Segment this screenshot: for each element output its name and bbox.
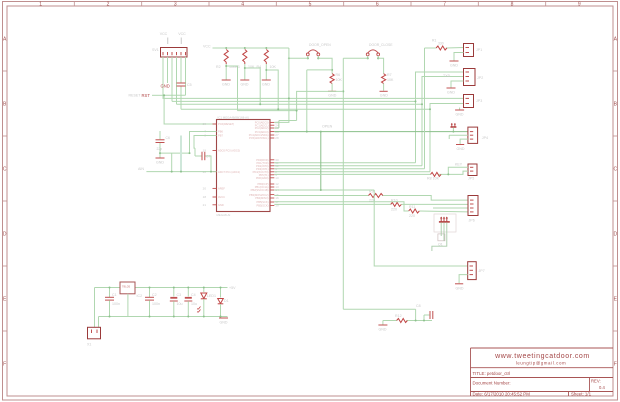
ground under JP4 [456, 145, 465, 152]
wire VCC to JP3 [289, 97, 464, 99]
wire pin4 [176, 57, 178, 104]
resistor R4 [257, 47, 277, 80]
svg-text:D1: D1 [224, 299, 229, 303]
wire pin3 [171, 57, 173, 101]
svg-text:GND: GND [220, 321, 228, 325]
svg-text:F: F [614, 362, 617, 368]
svg-text:22p: 22p [157, 147, 163, 151]
svg-text:VCC: VCC [178, 32, 186, 36]
svg-text:OPEN: OPEN [322, 125, 333, 129]
wire S1 tap branch [307, 70, 332, 132]
ground under R4 [262, 80, 271, 87]
resistor R10 [391, 202, 402, 206]
svg-text:R2: R2 [216, 65, 221, 69]
svg-text:TXD: TXD [443, 74, 451, 78]
svg-text:18: 18 [203, 195, 207, 199]
svg-text:JP7: JP7 [479, 269, 485, 273]
svg-text:PD6(AIN0): PD6(AIN0) [256, 176, 269, 180]
svg-text:JP2: JP2 [477, 76, 483, 80]
svg-text:4: 4 [241, 2, 244, 8]
wire stack2 tap [245, 68, 260, 104]
svg-text:100n: 100n [152, 302, 160, 306]
svg-text:21: 21 [203, 203, 207, 207]
wire + resistor R11 [274, 202, 468, 212]
ground under JP2 [447, 88, 456, 95]
battery connector X1 [87, 327, 101, 346]
IC pin numbers gray [203, 121, 279, 208]
svg-text:F: F [3, 362, 6, 368]
svg-text:PB4(MISO): PB4(MISO) [255, 196, 268, 200]
svg-text:RST: RST [142, 93, 151, 98]
svg-text:GND: GND [456, 113, 464, 117]
IC left pin stubs [213, 124, 217, 205]
svg-text:RESET: RESET [129, 94, 142, 98]
wire stack3 tap [266, 70, 278, 109]
svg-text:VCC: VCC [203, 45, 211, 49]
svg-text:JP1: JP1 [476, 48, 482, 52]
wire JP2 pin3 to ground [451, 81, 464, 88]
svg-text:GND: GND [262, 83, 270, 87]
svg-text:9: 9 [578, 2, 581, 8]
wire JP6 pin3 [433, 207, 468, 209]
svg-text:PC6(/RESET): PC6(/RESET) [218, 122, 234, 126]
connector JP1 [464, 44, 483, 57]
svg-text:GND: GND [161, 84, 170, 89]
svg-text:LED1: LED1 [207, 294, 216, 298]
wire pin1 [163, 57, 289, 98]
wires from M03 [432, 222, 447, 251]
wire box upper [146, 131, 216, 172]
svg-text:C1: C1 [112, 293, 117, 297]
ground under R2 [222, 80, 231, 87]
svg-text:KEY: KEY [455, 163, 463, 167]
svg-text:+5V: +5V [229, 286, 236, 290]
svg-text:8: 8 [511, 2, 514, 8]
LED1 [197, 287, 216, 318]
resistor R9 [369, 194, 383, 198]
capacitor C8 [430, 311, 433, 319]
title block [471, 348, 614, 396]
svg-text:100n: 100n [112, 302, 120, 306]
wire bus B3 [177, 77, 464, 166]
svg-text:C5: C5 [187, 83, 192, 87]
svg-text:PB5(SCK): PB5(SCK) [257, 200, 269, 204]
wires from SV1 [163, 57, 289, 109]
ground under R7 [380, 91, 389, 97]
regulator IC2 78L05 [120, 282, 142, 317]
svg-text:JP4: JP4 [482, 136, 488, 140]
svg-text:PC5(ADC5/SCL): PC5(ADC5/SCL) [249, 136, 269, 140]
resistor R7 below S2 [382, 73, 394, 91]
resistor R1 to JP1 [274, 48, 463, 169]
svg-text:2: 2 [107, 2, 110, 8]
svg-text:7: 7 [443, 2, 446, 8]
svg-text:Sheet: 1/1: Sheet: 1/1 [571, 391, 592, 396]
svg-text:R7: R7 [387, 73, 392, 77]
resistor R3 [235, 47, 255, 80]
svg-text:GND: GND [457, 147, 465, 151]
svg-text:AVCC: AVCC [218, 195, 225, 199]
ground under R5 [328, 91, 337, 97]
svg-text:GND: GND [456, 287, 464, 291]
svg-text:C8: C8 [416, 304, 421, 308]
capacitor C2 [145, 287, 160, 318]
resistor R12 [397, 319, 408, 323]
svg-text:AREF: AREF [218, 187, 225, 191]
connector JP2 [464, 69, 484, 86]
svg-text:TITLE: petdoor_ctrl: TITLE: petdoor_ctrl [473, 371, 511, 376]
svg-text:GND: GND [241, 83, 249, 87]
svg-text:ADC6 PC0 (ADC0): ADC6 PC0 (ADC0) [218, 149, 240, 153]
svg-text:VCC: VCC [160, 32, 168, 36]
svg-text:leungtip@gmail.com: leungtip@gmail.com [516, 360, 567, 365]
wire stack1 tap [226, 66, 296, 111]
svg-text:29: 29 [203, 122, 207, 126]
svg-text:R12: R12 [395, 314, 402, 318]
arrows comp M02 by JP4 [450, 123, 456, 127]
ground under JP1 [450, 61, 459, 68]
wire dark to JP7 [274, 190, 467, 266]
connector JP4 [468, 127, 488, 143]
svg-text:PB6: PB6 [218, 130, 223, 134]
svg-text:GND: GND [218, 203, 224, 207]
ground under JP7 [455, 284, 464, 291]
svg-text:10K: 10K [270, 65, 277, 69]
capacitor C3 electrolytic [170, 287, 183, 318]
svg-text:78L05: 78L05 [122, 285, 131, 289]
svg-text:GND: GND [328, 94, 336, 98]
wire bus B2 [172, 72, 464, 163]
wire reed2 long route [343, 309, 432, 324]
svg-text:PB5(SCK): PB5(SCK) [257, 204, 269, 208]
wire VCC drop from rail to IC [274, 48, 289, 122]
connector SV1 [152, 32, 187, 57]
wire pin6 [185, 57, 187, 95]
svg-text:AIN: AIN [138, 167, 144, 171]
svg-text:X1: X1 [87, 343, 91, 347]
svg-text:R6: R6 [336, 73, 341, 77]
svg-text:PC3(ADC3): PC3(ADC3) [255, 130, 269, 134]
svg-text:1: 1 [39, 2, 42, 8]
IC pin names (right inside) [249, 121, 269, 208]
svg-text:JP6: JP6 [469, 219, 475, 223]
resistor R6 below S1 [330, 73, 342, 91]
svg-text:6: 6 [376, 2, 379, 8]
svg-text:C3: C3 [177, 293, 182, 297]
switch S2 [366, 43, 393, 59]
connector JP6 [468, 196, 478, 223]
svg-text:R8 10K: R8 10K [427, 177, 440, 181]
svg-text:10u: 10u [191, 302, 197, 306]
svg-text:IC2: IC2 [137, 294, 143, 298]
svg-text:C2: C2 [152, 293, 157, 297]
svg-text:PB3(MOSI/OC2): PB3(MOSI/OC2) [249, 193, 268, 197]
capacitor C7 [202, 152, 205, 160]
svg-text:Document Number:: Document Number: [473, 380, 511, 385]
svg-text:220: 220 [391, 208, 397, 212]
svg-text:C6: C6 [166, 136, 170, 140]
svg-text:10K: 10K [387, 78, 394, 82]
wires JP4 [449, 128, 468, 144]
wire RST to IC [152, 95, 217, 124]
svg-text:5: 5 [309, 2, 312, 8]
IC pin names (left inside) [218, 122, 240, 207]
svg-text:MEGA8-AI: MEGA8-AI [217, 213, 231, 217]
capacitor C6 [156, 140, 165, 143]
wire + resistor R13 to JP5 [274, 167, 468, 174]
wire JP1 pin2 to ground [454, 53, 464, 61]
ground at RC [378, 325, 387, 332]
wire S2 left drop [343, 58, 383, 309]
svg-text:SV1: SV1 [152, 48, 159, 52]
ground under R3 [240, 80, 249, 87]
wire highlighted net at x=181 [180, 136, 182, 172]
diode D1 [218, 287, 229, 318]
svg-text:GND: GND [447, 91, 455, 95]
connector JP3 [464, 95, 483, 108]
svg-text:10u: 10u [177, 302, 183, 306]
svg-text:JP5: JP5 [468, 177, 474, 181]
connector M03 arrows [434, 214, 456, 232]
wire JP7 pin3 to ground [459, 275, 468, 284]
svg-text:C7: C7 [206, 155, 210, 159]
svg-text:D: D [613, 232, 617, 238]
svg-text:GND: GND [222, 83, 230, 87]
svg-text:www.tweetingcatdoor.com: www.tweetingcatdoor.com [494, 353, 590, 360]
svg-text:JP3: JP3 [476, 99, 482, 103]
svg-text:28: 28 [275, 136, 279, 140]
ground under JP3 [459, 108, 461, 110]
ground right end of bottom rail [219, 318, 228, 325]
svg-text:GND: GND [450, 64, 458, 68]
svg-text:D: D [3, 232, 7, 238]
capacitor C5 on pin5 [177, 83, 186, 86]
svg-text:PB2(SS/OC1B): PB2(SS/OC1B) [251, 188, 269, 192]
svg-text:20: 20 [203, 187, 207, 191]
wire + resistor R9 [274, 196, 468, 201]
svg-text:DOOR_OPEN: DOOR_OPEN [309, 43, 331, 47]
svg-text:GND: GND [380, 94, 388, 98]
svg-text:Date: 6/17/2010 20:45:52 PM: Date: 6/17/2010 20:45:52 PM [473, 391, 531, 396]
svg-text:0.4: 0.4 [599, 385, 605, 390]
svg-text:R1: R1 [432, 39, 436, 43]
svg-text:REV:: REV: [591, 379, 601, 384]
svg-text:IC1 MEGA48/88/168-AU: IC1 MEGA48/88/168-AU [218, 115, 250, 119]
wire bus B4 [181, 104, 464, 172]
resistor R11 [409, 209, 420, 213]
svg-text:GND: GND [379, 328, 387, 332]
connector JP7 [468, 262, 485, 280]
svg-text:3: 3 [174, 2, 177, 8]
svg-text:GND: GND [156, 161, 164, 165]
capacitor C4 electrolytic [184, 287, 197, 318]
ground under C6 [156, 158, 165, 165]
svg-text:ADC7 PC1 (ADC1): ADC7 PC1 (ADC1) [218, 170, 240, 174]
connector JP5 [468, 164, 477, 181]
IC right pin stubs [270, 122, 274, 205]
wire bus B5 staircase [274, 91, 343, 128]
svg-text:330: 330 [438, 42, 444, 46]
svg-text:R11: R11 [409, 205, 415, 209]
resistor R2 [216, 47, 236, 80]
wire pin5 to cap [180, 57, 182, 83]
svg-text:C4: C4 [191, 293, 196, 297]
wire + resistor R10 [274, 203, 468, 205]
svg-text:C: C [3, 167, 7, 173]
svg-text:10: 10 [275, 176, 279, 180]
svg-text:220: 220 [409, 214, 415, 218]
wire reed1 signal long [274, 132, 468, 190]
svg-text:10K: 10K [336, 78, 343, 82]
wire top rail [95, 288, 228, 328]
wire S1 left to VCC drop [289, 58, 332, 73]
svg-text:C: C [613, 167, 617, 173]
switch S1 [306, 43, 331, 59]
svg-text:PB7: PB7 [218, 134, 223, 138]
wire pin2 to GND label [167, 57, 169, 83]
svg-text:DOOR_CLOSE: DOOR_CLOSE [369, 43, 393, 47]
svg-text:PC2(ADC2): PC2(ADC2) [255, 126, 269, 130]
capacitor C1 [105, 287, 120, 318]
IC IC1 MEGA48/88/168-AU [217, 115, 271, 217]
crystal Q1 [438, 234, 445, 247]
